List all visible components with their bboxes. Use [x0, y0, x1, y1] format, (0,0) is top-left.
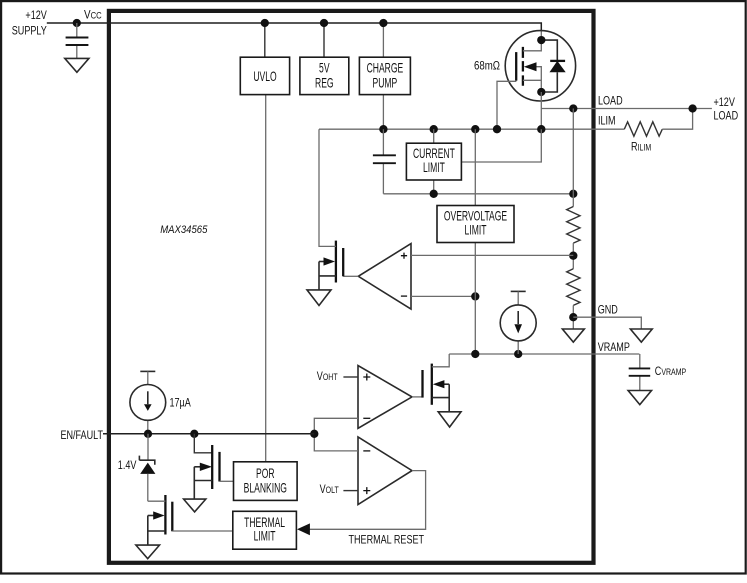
block OVERVOLTAGE LIMIT: [437, 206, 514, 243]
node gate line M1 gate: [493, 125, 501, 133]
ground below CVRAMP: [628, 391, 651, 405]
svg-text:5V: 5V: [319, 62, 330, 76]
block UVLO: [240, 57, 289, 94]
node VCC junction: [73, 19, 81, 27]
svg-text:VCC: VCC: [84, 9, 102, 22]
svg-text:+12V: +12V: [25, 9, 47, 23]
svg-text:RILIM: RILIM: [631, 140, 651, 154]
svg-text:LIMIT: LIMIT: [254, 530, 276, 544]
wire current limit bottom lead: [433, 179, 435, 194]
wire A1 output to M2 gate: [343, 275, 358, 277]
M3 drain lead: [148, 500, 166, 502]
transistor M3 fault pulldown: [148, 495, 233, 545]
svg-text:OVERVOLTAGE: OVERVOLTAGE: [444, 210, 508, 224]
power MOSFET M1 68mohm: [497, 31, 576, 130]
node VRAMP overvoltage sense: [471, 350, 479, 358]
svg-text:+12V: +12V: [714, 96, 736, 110]
M1 gate route to gate line: [497, 81, 516, 130]
svg-text:VOHT: VOHT: [317, 370, 338, 384]
M2 drain lead: [319, 129, 336, 246]
svg-text:LIMIT: LIMIT: [465, 224, 487, 238]
svg-text:SUPPLY: SUPPLY: [12, 24, 47, 38]
transistor M5 POR blanking: [194, 434, 233, 499]
ground below M5: [184, 499, 206, 512]
svg-text:VOLT: VOLT: [320, 483, 339, 497]
M2 body arrow: [319, 261, 326, 263]
wire A3 output thermal reset: [309, 471, 426, 530]
wire gate/ILIM line: [319, 128, 624, 130]
wire VRAMP line: [449, 353, 639, 355]
M5 gate bar: [218, 452, 220, 482]
svg-text:CVRAMP: CVRAMP: [655, 365, 687, 379]
resistor R2 divider bottom: [567, 269, 580, 306]
M5 drain lead: [194, 434, 212, 453]
capacitor CVRAMP: [629, 354, 651, 391]
svg-text:LIMIT: LIMIT: [423, 161, 445, 175]
svg-text:68mΩ: 68mΩ: [474, 59, 500, 72]
wire EN/FAULT line: [103, 433, 314, 435]
svg-text:POR: POR: [256, 467, 275, 481]
node gate line overvoltage sense: [471, 125, 479, 133]
svg-text:PUMP: PUMP: [373, 77, 398, 91]
wire source sense down to gate line: [540, 109, 542, 130]
wire CHARGE PUMP output down to gate line: [382, 95, 384, 130]
M3 source lead: [148, 516, 166, 546]
M3 channel bar: [164, 495, 166, 535]
svg-text:GND: GND: [598, 303, 618, 317]
ground below M3: [136, 545, 160, 559]
M1 gate bar: [515, 52, 517, 81]
A1 plus sign: [401, 253, 407, 259]
wire R2 to GND node: [572, 305, 574, 329]
M1 channel segments: [522, 47, 524, 86]
svg-text:EN/FAULT: EN/FAULT: [60, 429, 103, 443]
A2 plus sign: [363, 374, 370, 381]
wire A1 minus input: [411, 295, 475, 297]
wire R1 to R2: [572, 243, 574, 269]
node rail-CHARGEPUMP: [379, 19, 387, 27]
svg-text:17µA: 17µA: [170, 396, 192, 410]
wire current limit right lead to source sense: [462, 129, 542, 162]
M1 body arrow: [535, 67, 541, 92]
ground at GND pin: [630, 329, 652, 342]
wire M1 source down to LOAD line: [540, 92, 542, 109]
M1 drain lead: [523, 40, 541, 51]
A1 minus sign: [401, 295, 407, 297]
node rail-5VREG: [320, 19, 328, 27]
M1 drain node: [537, 36, 545, 44]
wire VOLT lead: [343, 490, 358, 492]
zener D1 1.4V: [139, 434, 155, 501]
M1 source lead: [523, 79, 541, 81]
A2 minus sign: [363, 417, 370, 419]
wire UVLO lead from rail: [264, 23, 266, 57]
svg-text:MAX34565: MAX34565: [160, 225, 208, 237]
svg-text:BLANKING: BLANKING: [244, 482, 287, 496]
wire GND pin: [573, 317, 641, 329]
M2 source lead: [319, 262, 336, 290]
svg-text:THERMAL: THERMAL: [244, 516, 285, 530]
M3 gate lead to THERMAL LIMIT: [172, 530, 233, 532]
node EN/FAULT CS1: [144, 430, 152, 438]
IC body MAX34565 box: [109, 11, 594, 563]
node gate line charge pump: [379, 125, 387, 133]
wire A2 A3 minus join to EN/FAULT: [314, 418, 358, 451]
wire RILIM to +12V LOAD: [662, 109, 692, 130]
M2 channel bar: [335, 241, 337, 283]
ground below M4: [438, 412, 461, 427]
A3 plus sign: [363, 487, 370, 494]
M5 body arrow: [194, 466, 201, 468]
M5 channel bar: [211, 445, 213, 489]
svg-text:CHARGE: CHARGE: [367, 62, 404, 76]
M4 gate bar: [421, 370, 423, 398]
block CURRENT LIMIT: [406, 143, 461, 180]
wire current limit top lead: [433, 129, 435, 143]
comparator A2 VOHT: [358, 366, 412, 429]
M4 source lead: [432, 384, 449, 412]
M5 gate lead: [220, 480, 234, 482]
node gate line source sense: [537, 125, 545, 133]
wire VOHT lead: [343, 376, 358, 378]
capacitor C2 charge pump: [373, 129, 396, 194]
node A1 minus to vertical sense: [471, 292, 479, 300]
transistor M4 ramp discharge: [423, 354, 450, 412]
M3 body arrow: [148, 515, 155, 517]
block 5V REG: [300, 57, 349, 94]
node EN/FAULT POR: [190, 430, 198, 438]
ground below divider: [562, 329, 584, 342]
wire UVLO output down to POR BLANKING: [265, 95, 267, 462]
M2 gate bar: [342, 248, 344, 276]
A3 minus sign: [363, 450, 370, 452]
svg-text:1.4V: 1.4V: [118, 459, 137, 473]
node bottom sense current limit: [430, 190, 438, 198]
block CHARGE PUMP: [359, 57, 410, 94]
M3 gate bar: [171, 502, 173, 532]
node bottom sense divider top: [569, 190, 577, 198]
svg-text:CURRENT: CURRENT: [413, 147, 455, 161]
M1 body diode: [541, 40, 557, 92]
M1 circle: [505, 31, 575, 101]
resistor R1 divider top: [567, 207, 580, 244]
node LOAD sense: [569, 104, 577, 112]
wire overvoltage sense vertical: [474, 129, 476, 354]
svg-text:LOAD: LOAD: [714, 109, 739, 123]
arrow into THERMAL LIMIT: [297, 523, 310, 535]
M4 channel bar: [431, 364, 433, 405]
wire A1 plus input from divider tap: [411, 254, 573, 256]
block THERMAL LIMIT: [233, 511, 297, 549]
ground below M2: [307, 290, 331, 306]
comparator A3 VOLT: [358, 437, 412, 505]
M1 source node: [537, 88, 545, 96]
svg-text:LOAD: LOAD: [598, 94, 623, 108]
wire LOAD sense down to divider: [572, 109, 574, 207]
capacitor C1 at VCC: [66, 23, 89, 58]
M5 source lead: [194, 467, 212, 499]
node divider mid tap: [569, 252, 577, 260]
comparator A1 gate shutdown: [358, 244, 411, 309]
ground below C1: [65, 58, 89, 72]
node divider bottom GND: [569, 313, 577, 321]
node minus join: [310, 430, 318, 438]
M4 body arrow: [443, 383, 450, 385]
svg-text:UVLO: UVLO: [253, 70, 276, 84]
transistor M2 gate pulldown: [319, 129, 343, 290]
wire LOAD line: [541, 108, 712, 110]
wire CHARGE PUMP lead from rail: [382, 23, 384, 57]
svg-text:ILIM: ILIM: [598, 114, 616, 128]
current source CS2 ramp: [500, 291, 536, 354]
block POR BLANKING: [234, 462, 298, 501]
wire bottom sense line: [383, 193, 573, 195]
svg-text:VRAMP: VRAMP: [598, 341, 630, 355]
svg-text:THERMAL RESET: THERMAL RESET: [349, 533, 425, 547]
current source CS1 17uA: [130, 371, 166, 433]
wire 5V REG lead from rail: [323, 23, 325, 57]
node +12V LOAD junction: [688, 104, 696, 112]
wire VCC top rail: [47, 23, 542, 31]
node VRAMP current source: [514, 350, 522, 358]
node gate line current limit top: [430, 125, 438, 133]
node rail-UVLO: [261, 19, 269, 27]
wire A2 output to M4 gate: [412, 396, 423, 398]
svg-text:REG: REG: [315, 77, 334, 91]
M4 drain lead: [432, 354, 449, 367]
resistor RILIM: [624, 122, 662, 136]
